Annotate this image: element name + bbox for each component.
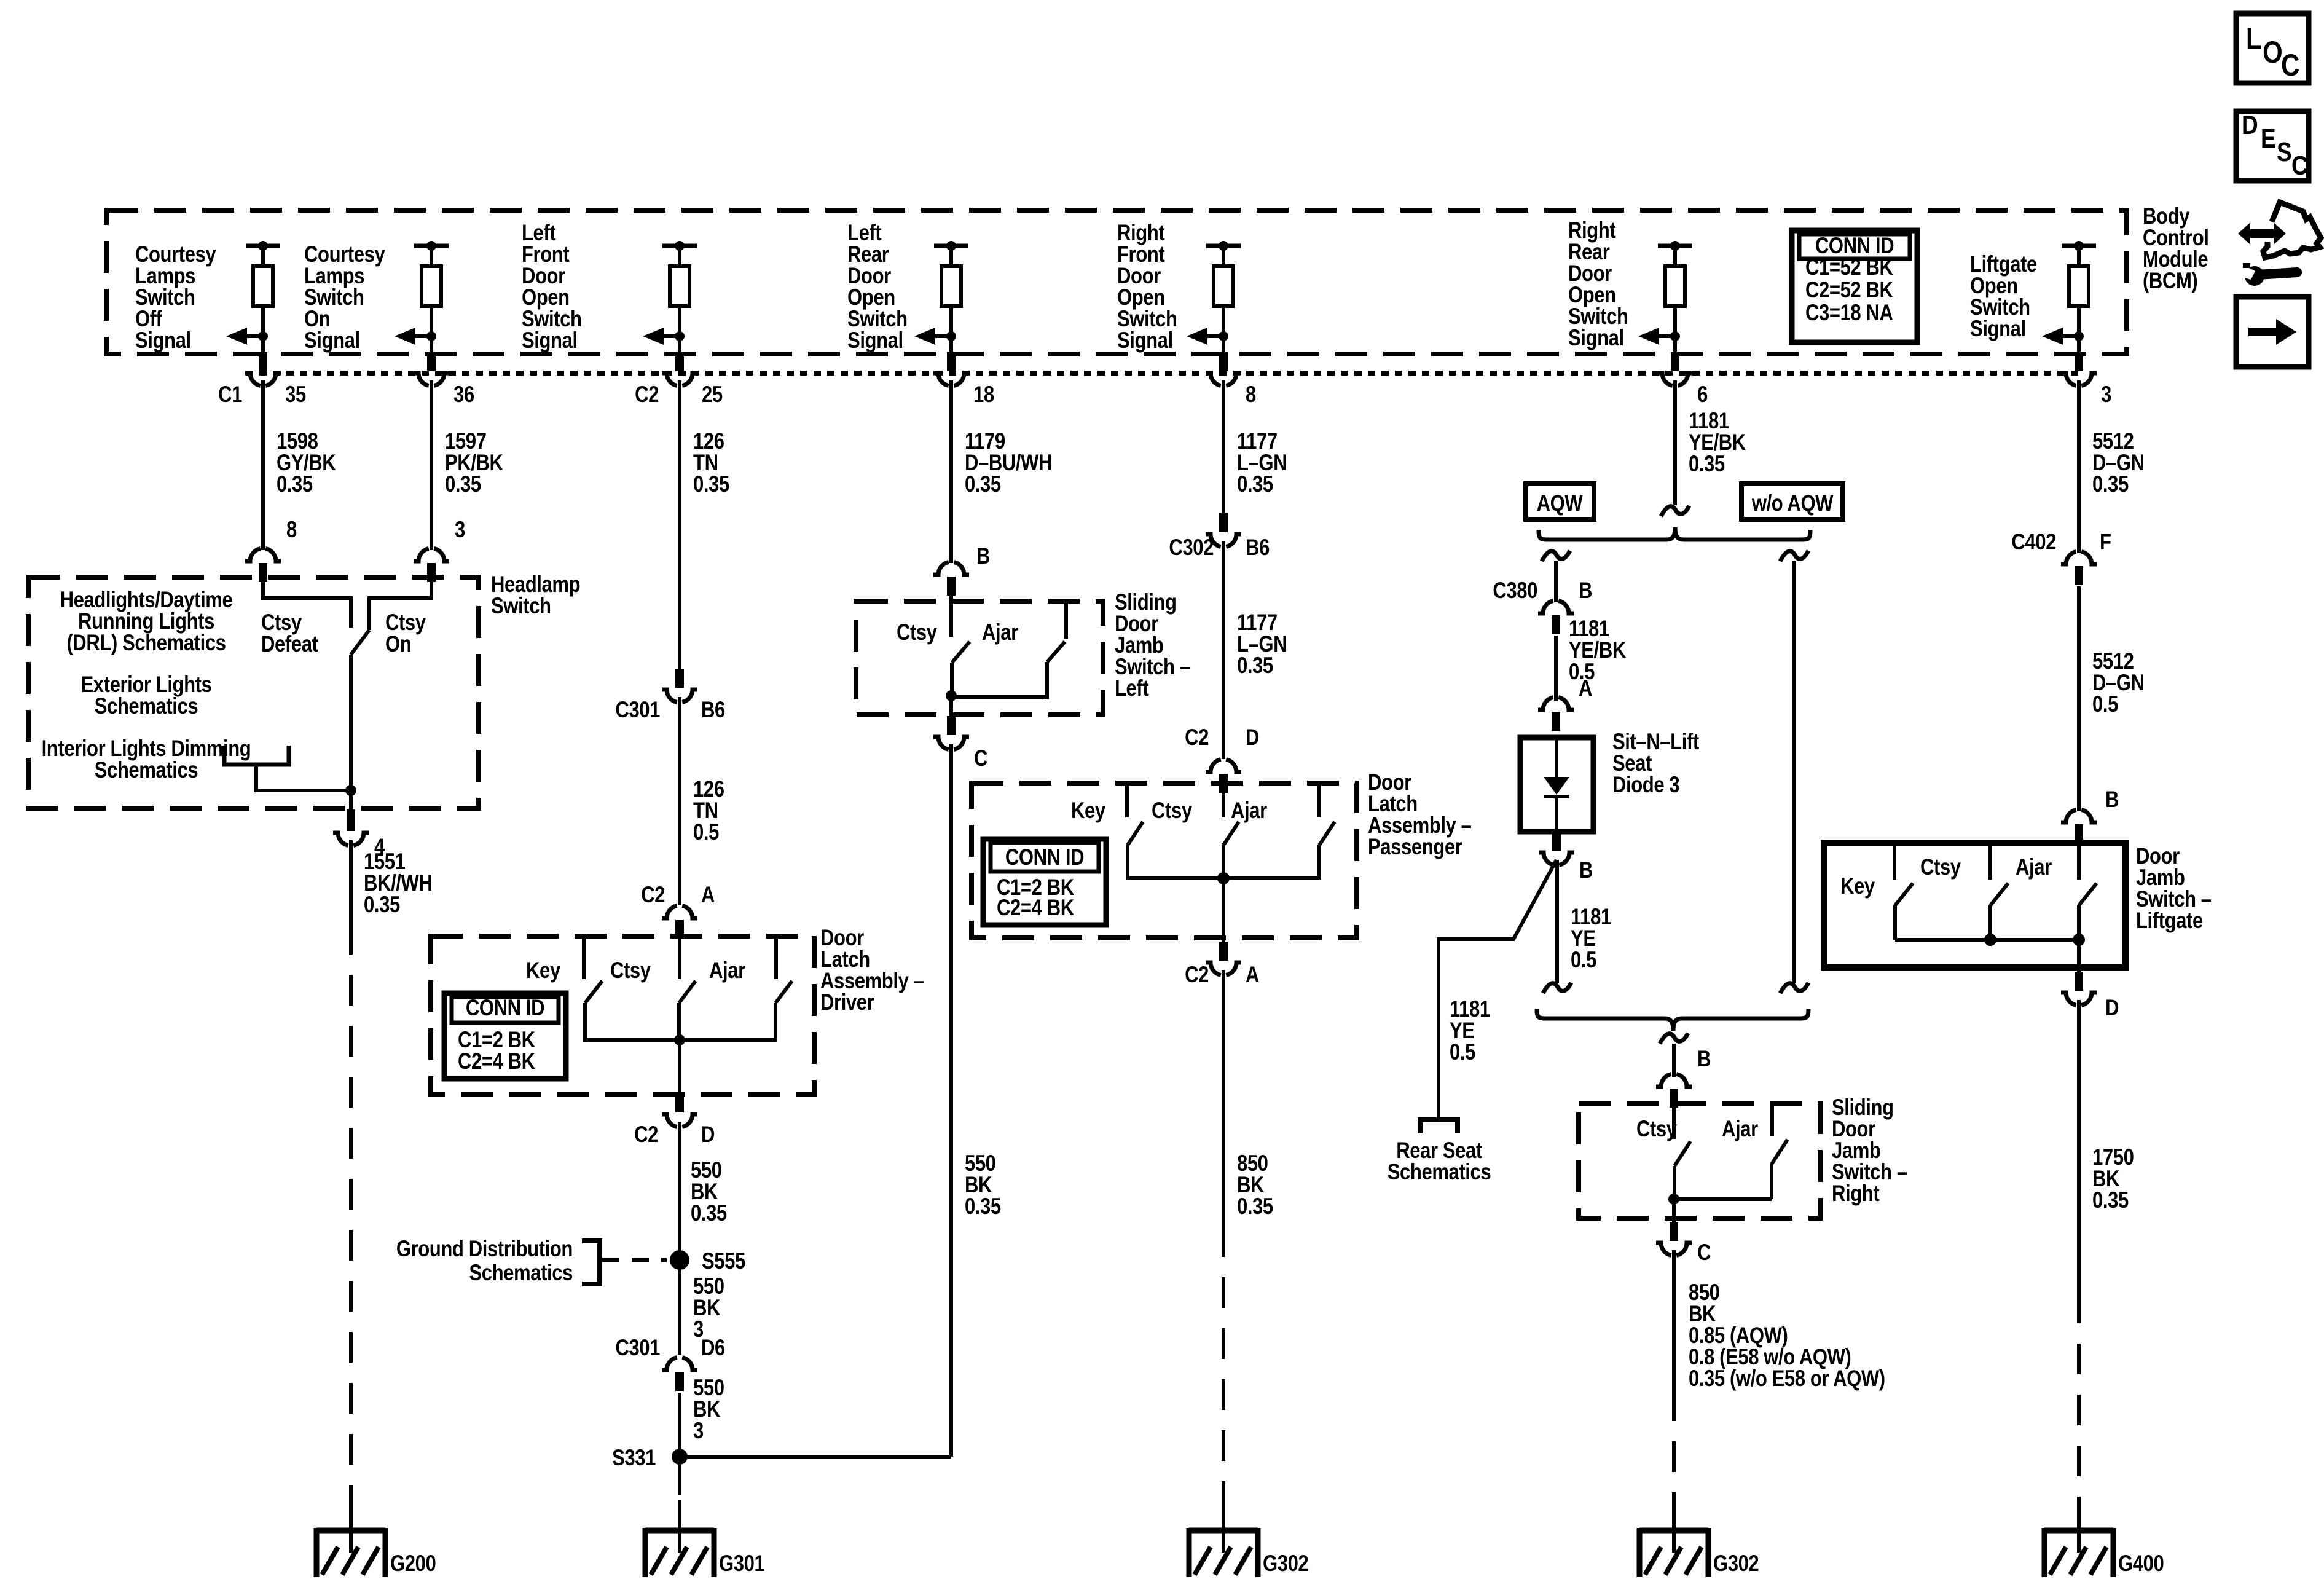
svg-text:C: C [1697, 1240, 1711, 1266]
svg-text:C2=52 BK: C2=52 BK [1805, 278, 1893, 303]
BCM output: Courtesy Lamps Switch Off Signal (resistor, arrow, pin 35) [246, 244, 280, 248]
svg-text:0.35: 0.35 [2092, 1188, 2129, 1213]
connector C302 B6 (cup) [1219, 513, 1228, 532]
svg-text:18: 18 [973, 382, 994, 408]
svg-text:Ctsy: Ctsy [610, 958, 651, 983]
svg-text:C3=18 NA: C3=18 NA [1805, 301, 1893, 326]
svg-text:A: A [701, 883, 715, 908]
connector C2 A (dome) [662, 906, 677, 919]
svg-text:Ctsy: Ctsy [897, 620, 937, 645]
svg-text:Schematics: Schematics [95, 758, 198, 783]
ground distribution bracket [582, 1241, 600, 1284]
wire S331 to left rear door wire [680, 1455, 951, 1459]
connector pin 4 (cup exit) [347, 809, 355, 831]
ground G200 [349, 1512, 353, 1553]
wire pin3 to switch [369, 582, 431, 630]
svg-text:0.35: 0.35 [965, 472, 1001, 497]
AQW branch wire to C380 [1554, 561, 1558, 602]
svg-text:C402: C402 [2011, 530, 2056, 555]
jamb-left bus wire [951, 695, 1047, 699]
wire 126 TN 0.35 [678, 380, 681, 670]
svg-text:Ctsy: Ctsy [1636, 1117, 1677, 1142]
icon DESC box [2236, 111, 2309, 181]
svg-text:8: 8 [1246, 382, 1256, 408]
svg-text:0.35: 0.35 [277, 472, 313, 497]
jamb-right Ctsy blade [1674, 1141, 1690, 1166]
wire switch to junction [349, 655, 353, 790]
svg-text:C: C [974, 746, 987, 771]
svg-text:D6: D6 [701, 1336, 725, 1361]
connector B diode exit (cup) [1552, 832, 1561, 851]
wire 1177 (pin 8 down) [1222, 380, 1225, 516]
svg-text:Driver: Driver [820, 990, 874, 1015]
wire break squiggle (merged) [1660, 1033, 1688, 1044]
svg-text:Signal: Signal [135, 328, 191, 353]
svg-text:C2=4 BK: C2=4 BK [458, 1049, 535, 1074]
liftgate Ctsy stub [1893, 843, 1896, 880]
svg-text:CONN ID: CONN ID [1005, 845, 1084, 870]
svg-text:D: D [1246, 725, 1259, 750]
wire 850 BK 0.35 [1222, 970, 1225, 1226]
svg-text:C: C [2281, 48, 2299, 82]
svg-text:0.5: 0.5 [2092, 692, 2118, 717]
svg-text:Liftgate: Liftgate [2136, 908, 2203, 934]
svg-text:0.35: 0.35 [965, 1194, 1001, 1219]
wire break squiggle (main) [1661, 506, 1689, 516]
connector C301 D6 (dome) [662, 1358, 677, 1371]
wire 5512 D-GN 0.5 [2077, 586, 2081, 811]
headlamp switch blade [351, 630, 369, 655]
svg-text:3: 3 [455, 518, 465, 543]
BCM output: Liftgate Open Switch Signal (resistor, arrow, pin 3) [2062, 244, 2096, 248]
driver latch Ctsy contact stub [582, 936, 586, 979]
svg-text:Passenger: Passenger [1368, 835, 1462, 860]
svg-text:0.35: 0.35 [1237, 1194, 1273, 1219]
svg-text:Ajar: Ajar [1231, 798, 1267, 824]
wire break squiggle (w/o AQW bottom) [1780, 983, 1808, 993]
svg-text:Key: Key [526, 958, 560, 983]
BCM module box (dashed) [106, 210, 2127, 354]
liftgate Ctsy blade [1895, 883, 1913, 905]
svg-text:Ajar: Ajar [982, 620, 1018, 645]
liftgate Ajar blade [1990, 883, 2008, 905]
BCM output: Courtesy Lamps Switch On Signal (resistor, arrow, pin 36) [414, 244, 449, 248]
svg-text:0.35: 0.35 [1237, 653, 1273, 679]
svg-text:0.35 (w/o E58 or AQW): 0.35 (w/o E58 or AQW) [1689, 1366, 1885, 1392]
svg-text:C2: C2 [634, 1122, 658, 1148]
wire merged to B jamb-right [1672, 1044, 1676, 1077]
svg-text:B: B [2105, 787, 2119, 813]
svg-text:25: 25 [702, 382, 723, 408]
svg-text:B: B [1697, 1047, 1711, 1072]
svg-text:G302: G302 [1713, 1551, 1759, 1577]
wire jamb-left to C [949, 697, 953, 720]
wire 850 BK to G302 (dashed) [1222, 1226, 1225, 1515]
ground G302 (right side) [1672, 1512, 1676, 1553]
svg-text:C2=4 BK: C2=4 BK [997, 896, 1074, 921]
BCM output: Left Rear Door Open Switch Signal (resistor, arrow, pin 18) [934, 244, 968, 248]
jamb-left Ctsy blade [952, 642, 970, 663]
wire diode B down [1555, 860, 1559, 983]
rear seat bracket [1420, 1120, 1458, 1133]
wire 5512 (pin 3 down) [2077, 380, 2081, 553]
svg-text:On: On [385, 632, 411, 657]
connector pin 3 (dome) [414, 549, 429, 562]
connector C402 (dome) [2061, 552, 2076, 565]
wire 1181 YE/BK 0.5 [1554, 636, 1558, 701]
connector B jamb-right (dome) [1656, 1074, 1671, 1087]
svg-text:8: 8 [286, 518, 297, 543]
wire 850 BK (right) [1672, 1250, 1676, 1390]
svg-text:0.35: 0.35 [691, 1201, 727, 1226]
connector C (cup exit jamb-left) [947, 716, 956, 735]
svg-text:Right: Right [1832, 1181, 1879, 1207]
wire 550 BK 3 (upper) [678, 1260, 681, 1355]
w/o AQW branch wire [1792, 561, 1796, 983]
wire 1181 (pin 6 down) [1673, 380, 1677, 505]
passenger latch center stub [1222, 785, 1225, 817]
svg-text:C2: C2 [1185, 963, 1209, 988]
svg-text:E: E [2261, 123, 2275, 154]
svg-text:C: C [2291, 150, 2307, 181]
jamb-right junction dot [1668, 1194, 1679, 1205]
svg-text:0.5: 0.5 [693, 820, 719, 845]
splice S331 [672, 1449, 688, 1465]
svg-text:D: D [701, 1122, 715, 1148]
svg-text:C302: C302 [1169, 535, 1214, 561]
wire 1750 BK 0.35 [2077, 1000, 2081, 1293]
svg-text:Signal: Signal [304, 328, 360, 353]
icon double arrow with outline [2238, 222, 2286, 245]
svg-text:0.35: 0.35 [364, 892, 400, 918]
wire diode B to rear seat (diagonal) [1439, 860, 1557, 1118]
svg-text:Ajar: Ajar [1722, 1117, 1758, 1142]
svg-text:D: D [2242, 109, 2258, 140]
connector B jamb-left (dome) [933, 562, 949, 575]
svg-text:Key: Key [1071, 798, 1105, 824]
wire junction to schematics bracket [256, 765, 351, 790]
svg-text:0.5: 0.5 [1450, 1040, 1475, 1065]
headlamp switch box (dashed) [28, 577, 479, 808]
passenger latch junction dot [1217, 872, 1230, 884]
svg-text:0.5: 0.5 [1571, 948, 1596, 973]
svg-text:Ctsy: Ctsy [1152, 798, 1192, 824]
wire 1597 (pin 36 to headlamp switch pin 3) [430, 380, 433, 550]
BCM CONN ID table [1792, 230, 1917, 342]
wire 1750 to G400 (dashed) [2077, 1293, 2081, 1515]
wire break squiggle (w/o AQW top) [1780, 551, 1808, 561]
wire 1177 L-GN 0.35 (lower) [1222, 541, 1225, 759]
svg-text:G301: G301 [719, 1551, 765, 1577]
connector B liftgate (dome) [2061, 810, 2076, 823]
sliding door jamb switch right box (dashed) [1579, 1104, 1820, 1218]
passenger latch center blade [1223, 822, 1239, 845]
ground G301 [678, 1512, 681, 1553]
svg-text:Signal: Signal [522, 328, 578, 353]
jamb-left Ajar blade [1047, 642, 1065, 662]
svg-text:(BCM): (BCM) [2143, 269, 2197, 294]
svg-text:S: S [2277, 136, 2291, 167]
jamb-right Ajar blade [1772, 1140, 1788, 1164]
driver latch center blade [679, 981, 696, 1003]
wire bus to C2 D [678, 1040, 681, 1095]
svg-text:C2: C2 [1185, 725, 1209, 750]
connector A diode (dome) [1538, 698, 1553, 711]
junction dot headlamp output [345, 785, 356, 796]
jamb-right bus wire [1674, 1197, 1772, 1201]
wire 850 BK to G302 (dashed) [1672, 1390, 1676, 1515]
svg-text:O: O [2263, 35, 2282, 69]
BCM output: Right Rear Door Open Switch Signal (resistor, arrow, pin 6) [1658, 244, 1692, 248]
merge brace (bottom) [1537, 1009, 1808, 1031]
svg-text:S555: S555 [702, 1249, 745, 1274]
dashed link to S555 [602, 1258, 667, 1262]
wire headlamp output pin 4 [349, 790, 353, 812]
CONN ID table (driver latch) [444, 993, 566, 1079]
svg-text:B: B [1579, 858, 1593, 883]
svg-text:Signal: Signal [1568, 326, 1624, 351]
liftgate right blade [2079, 883, 2097, 905]
svg-text:C301: C301 [615, 698, 660, 723]
liftgate bus junction dots [1984, 934, 1996, 946]
passenger latch Ctsy blade [1128, 822, 1143, 845]
svg-text:Left: Left [1115, 676, 1148, 701]
wire 1551 to G200 (dashed) [349, 840, 353, 924]
svg-text:Signal: Signal [1970, 317, 2026, 342]
liftgate Ajar stub [1988, 843, 1992, 880]
svg-text:w/o AQW: w/o AQW [1751, 491, 1834, 516]
ground G400 [2077, 1512, 2081, 1553]
svg-text:Schematics: Schematics [95, 694, 198, 719]
wire bus to C2 A (passenger) [1222, 878, 1225, 942]
svg-text:Signal: Signal [1117, 328, 1173, 353]
wire 1598 (pin 35 to headlamp switch pin 8) [261, 380, 265, 550]
svg-text:Schematics: Schematics [469, 1261, 573, 1286]
Sit-N-Lift seat diode 3 box [1520, 738, 1593, 832]
svg-text:C380: C380 [1493, 578, 1537, 604]
wire 550 BK 3 (lower) [678, 1393, 681, 1457]
sliding door jamb switch left box (dashed) [856, 601, 1103, 715]
BCM output: Left Front Door Open Switch Signal (resistor, arrow, pin 25) [662, 244, 697, 248]
svg-text:35: 35 [285, 382, 306, 408]
door latch assembly driver box (dashed) [431, 936, 814, 1094]
wire 550 BK 0.35 [678, 1122, 681, 1260]
driver latch bus wire [583, 1038, 777, 1042]
svg-text:A: A [1579, 676, 1592, 701]
wire 1179 (pin 18 down) [949, 380, 953, 563]
svg-text:B6: B6 [1246, 535, 1270, 561]
svg-text:G302: G302 [1263, 1551, 1308, 1577]
svg-text:0.35: 0.35 [1237, 472, 1273, 497]
svg-text:S331: S331 [612, 1446, 656, 1471]
connector C (cup exit jamb-right) [1670, 1222, 1678, 1241]
in-line connector dotted line C1/C2 [246, 371, 2083, 376]
wire 550 BK 0.35 (left rear) [949, 744, 953, 1457]
svg-text:0.35: 0.35 [445, 472, 481, 497]
diode D3 symbol [1555, 738, 1558, 777]
svg-text:C1=52 BK: C1=52 BK [1805, 255, 1893, 280]
passenger latch bus wire [1128, 876, 1319, 880]
door latch assembly passenger box (dashed) [972, 783, 1357, 938]
wire S331 to G301 (dashed) [678, 1457, 681, 1495]
svg-text:B6: B6 [701, 698, 725, 723]
driver latch Ajar blade [775, 981, 792, 1003]
icon right-arrow box [2236, 297, 2309, 367]
svg-text:Ajar: Ajar [2016, 855, 2052, 880]
passenger latch Ajar blade [1319, 822, 1335, 845]
CONN ID table (passenger latch) [983, 839, 1106, 925]
svg-text:Diode 3: Diode 3 [1612, 773, 1679, 798]
connector C2 D (dome passenger) [1206, 760, 1221, 773]
svg-text:Switch: Switch [491, 594, 551, 619]
splice S555 [670, 1250, 689, 1270]
driver latch Ctsy blade [585, 981, 602, 1003]
jamb-left Ctsy stub [949, 596, 953, 637]
svg-text:0.35: 0.35 [2092, 472, 2129, 497]
svg-text:AQW: AQW [1537, 491, 1584, 516]
svg-text:0.35: 0.35 [1689, 452, 1725, 477]
passenger latch Ajar stub [1317, 783, 1321, 817]
svg-text:Defeat: Defeat [261, 632, 318, 657]
icon LOC box [2236, 14, 2309, 83]
connector pin 8 (dome) [245, 549, 261, 562]
svg-text:(DRL) Schematics: (DRL) Schematics [66, 631, 226, 656]
svg-text:B: B [1579, 578, 1592, 604]
svg-text:3: 3 [2101, 382, 2111, 408]
wire break squiggle (AQW branch top) [1542, 551, 1570, 561]
passenger latch Ctsy stub [1125, 783, 1129, 817]
svg-text:C2: C2 [635, 382, 659, 408]
ground G302 (passenger side) [1222, 1512, 1225, 1553]
driver latch bus junction dot [674, 1034, 685, 1045]
svg-text:C1: C1 [218, 382, 242, 408]
svg-text:Ajar: Ajar [709, 958, 745, 983]
svg-text:A: A [1246, 963, 1259, 988]
driver latch center stub [678, 939, 681, 979]
svg-text:G200: G200 [390, 1551, 436, 1577]
svg-text:Ctsy: Ctsy [1920, 855, 1961, 880]
svg-text:F: F [2100, 530, 2111, 555]
driver latch Ajar contact stub [774, 936, 778, 979]
svg-text:G400: G400 [2118, 1551, 2164, 1577]
bracket to other schematics [224, 746, 289, 765]
svg-text:Signal: Signal [847, 328, 903, 353]
svg-text:36: 36 [453, 382, 474, 408]
svg-text:CONN ID: CONN ID [466, 996, 544, 1021]
svg-text:C2: C2 [641, 883, 665, 908]
jamb-right Ajar stub [1770, 1104, 1774, 1136]
AQW option box [1526, 484, 1594, 519]
wire jamb-right to C [1672, 1199, 1676, 1222]
w/o AQW option box [1741, 484, 1843, 519]
connector C380 (dome) [1538, 601, 1553, 614]
split brace (top) [1539, 527, 1810, 540]
icon wrench [2245, 266, 2264, 286]
BCM output: Right Front Door Open Switch Signal (resistor, arrow, pin 8) [1206, 244, 1241, 248]
svg-text:3: 3 [693, 1419, 704, 1444]
wire liftgate to D [2077, 940, 2081, 976]
connector C2 D (cup exit driver latch) [675, 1093, 684, 1112]
svg-text:0.35: 0.35 [693, 472, 729, 497]
svg-text:Schematics: Schematics [1388, 1160, 1491, 1185]
svg-text:B: B [976, 544, 990, 569]
connector D (cup exit liftgate) [2075, 972, 2083, 991]
svg-text:C301: C301 [615, 1336, 660, 1361]
svg-text:Ground Distribution: Ground Distribution [396, 1237, 573, 1262]
liftgate right stub (wire) [2077, 845, 2081, 880]
connector C2 A (cup exit passenger) [1219, 942, 1228, 961]
wire 126 TN 0.5 [678, 697, 681, 905]
svg-text:D: D [2105, 996, 2119, 1021]
connector C301 B6 (cup) [675, 669, 684, 688]
liftgate bus wire [1895, 938, 2079, 942]
jamb-left junction dot [946, 690, 957, 701]
jamb-right Ctsy stub [1672, 1108, 1676, 1139]
svg-text:L: L [2246, 22, 2261, 56]
svg-text:Key: Key [1840, 874, 1875, 899]
svg-text:6: 6 [1697, 382, 1708, 408]
door jamb switch liftgate box (solid) [1824, 843, 2126, 967]
jamb-left Ajar stub [1064, 601, 1068, 639]
wire break squiggle (AQW branch bottom) [1543, 983, 1571, 993]
wire pin8 to Ctsy Defeat contact [263, 582, 351, 628]
